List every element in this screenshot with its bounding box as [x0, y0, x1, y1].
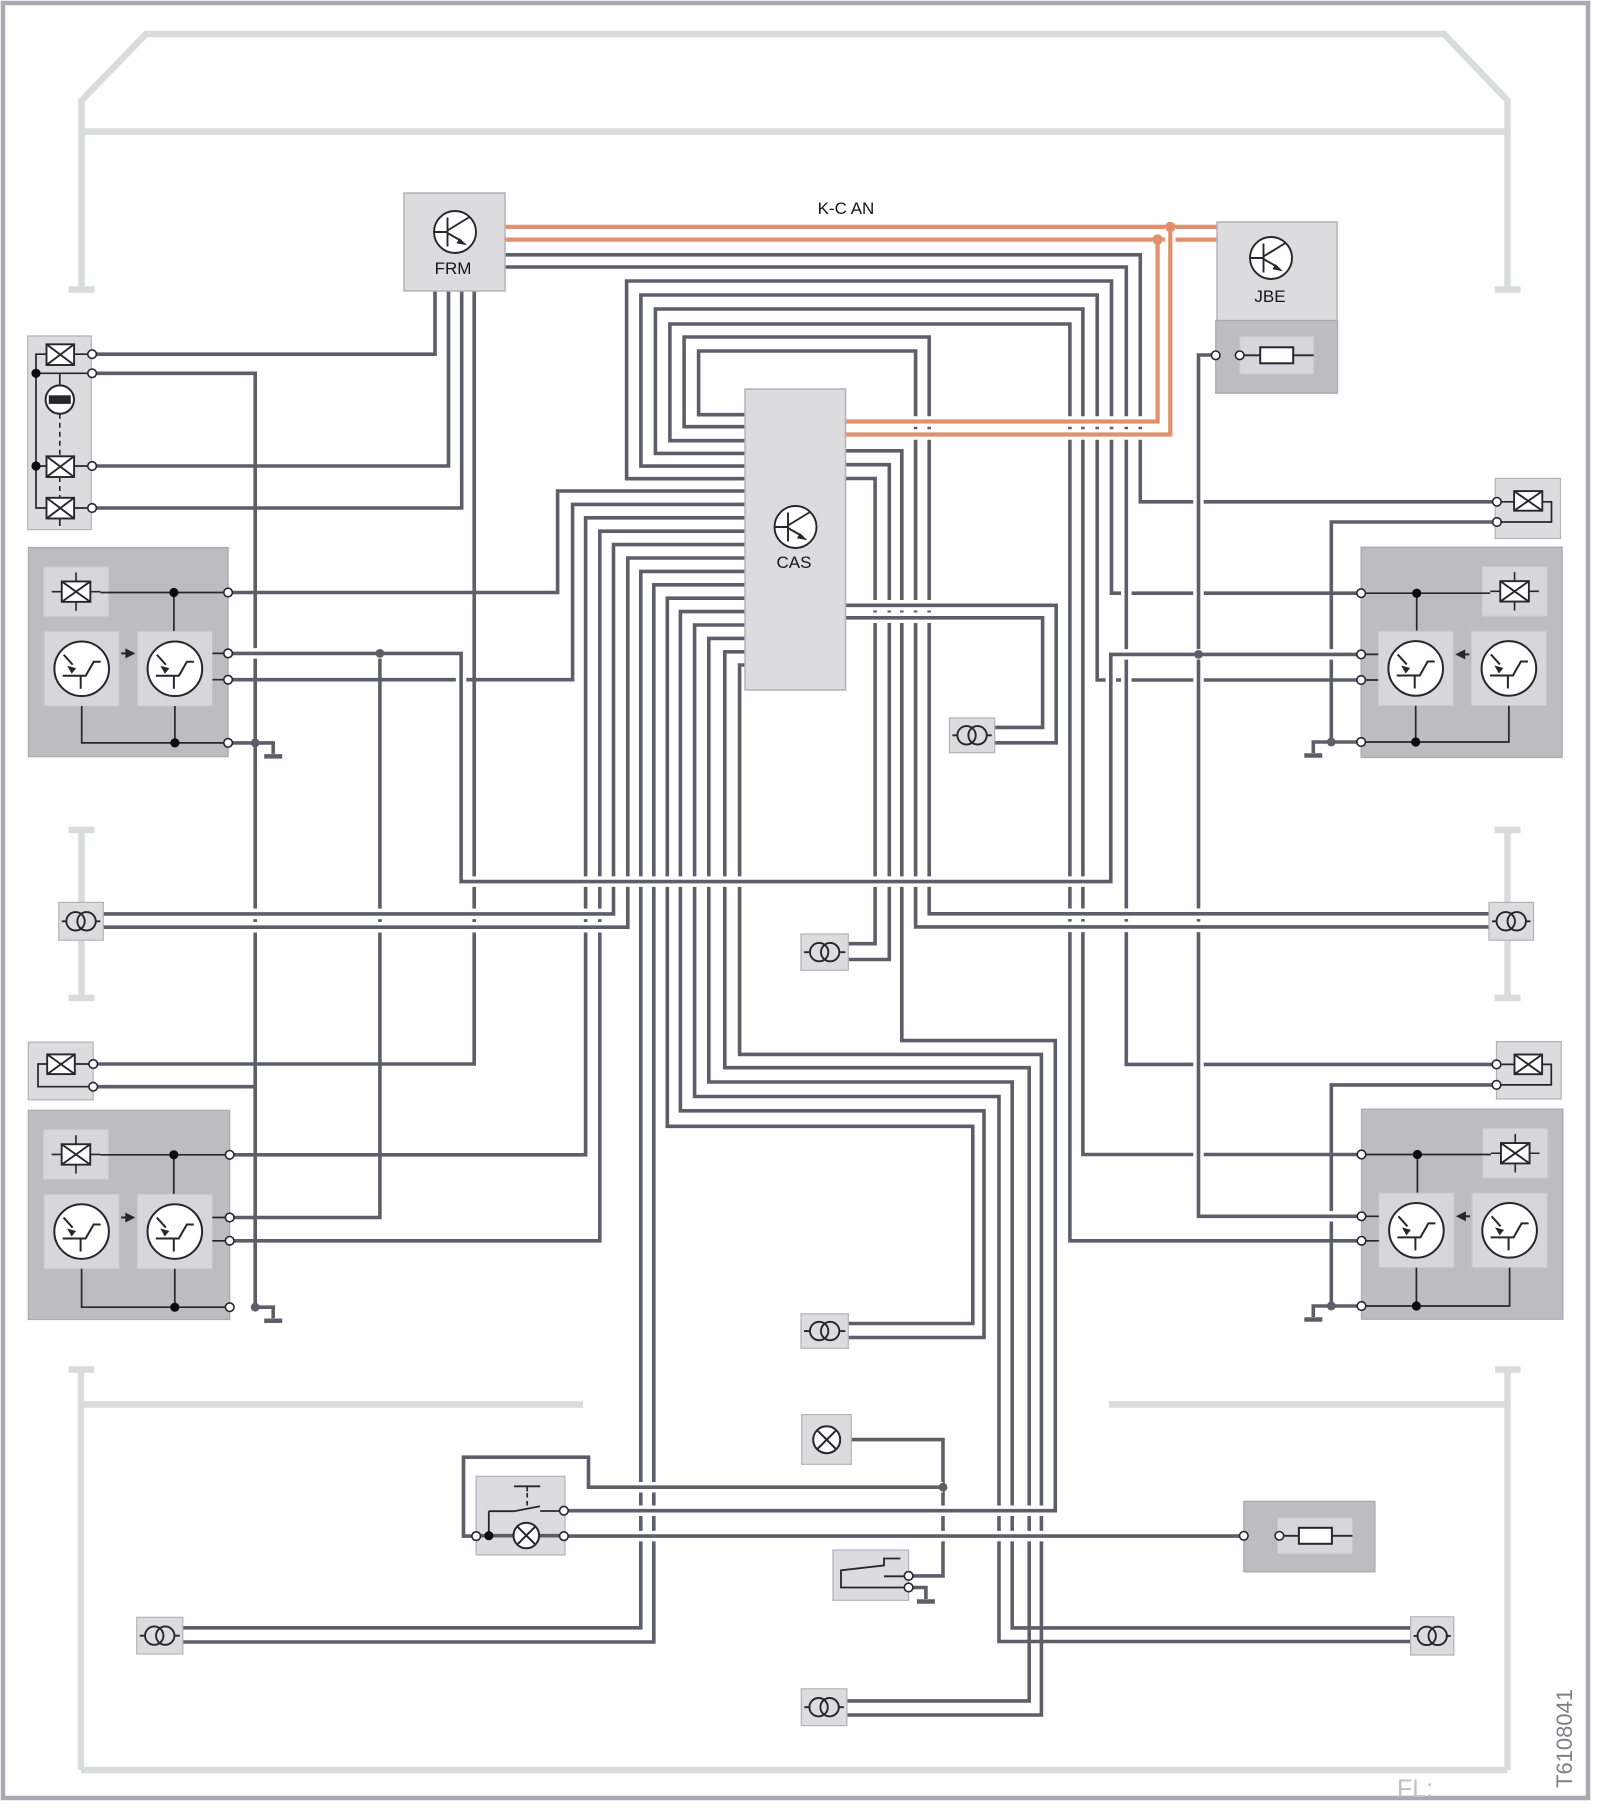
terminal switch out1	[560, 1506, 569, 1515]
wire cluster-B t2 to TR cluster t2	[229, 653, 1361, 881]
svg-text:FL:: FL:	[1397, 1775, 1433, 1803]
wire switch feed loop	[464, 1457, 944, 1536]
relay box	[833, 1550, 909, 1600]
relay contact	[841, 1559, 909, 1588]
wire L9 CAS to center marker top	[667, 598, 973, 1323]
junction node ground left low	[251, 1303, 260, 1312]
wire switch supply from CAS	[564, 451, 1055, 1511]
switch symbol	[514, 1485, 540, 1487]
wire L13 CAS to bottom-center marker top	[725, 652, 1029, 1701]
wire CAS right to mid marker bottom	[846, 605, 1057, 743]
wire L3 CAS to LL cluster t1	[228, 518, 745, 1155]
K-CAN drop inner	[846, 240, 1158, 422]
unit A minus lamp	[46, 385, 74, 413]
lamp bottom-center marker	[801, 1689, 847, 1726]
wire L2 CAS to cluster-B t3	[229, 504, 745, 679]
lamp right side marker	[1489, 902, 1534, 940]
wire branch to LL cluster t2	[228, 653, 380, 1217]
unit A box	[28, 336, 92, 530]
wire JBE fuse to BR cluster t2	[1199, 355, 1360, 1216]
switch box	[476, 1476, 565, 1555]
lamp BR side repeater	[1515, 1055, 1543, 1075]
terminal BR repeater b	[1492, 1081, 1501, 1090]
module JBE symbol	[1250, 237, 1292, 279]
wire FRM out2 to BR lamp-x	[505, 267, 1497, 1064]
JBE fuse link	[1242, 354, 1314, 356]
ground symbol right mid	[1313, 742, 1331, 753]
terminal A1	[88, 350, 97, 359]
unit A dashed link2	[59, 477, 61, 498]
wire FRM pin3 to front-left lamp unit	[92, 291, 462, 508]
switch lamp row	[476, 1534, 564, 1538]
lamp LL side repeater box	[28, 1042, 93, 1100]
cluster BR rear-right flasher unit	[1362, 1109, 1563, 1319]
lamp BR side repeater box	[1497, 1042, 1562, 1099]
junction node B-t2 branch	[376, 649, 385, 658]
lamp mid-right marker	[949, 718, 994, 753]
wire N6 CAS to right marker bottom	[699, 351, 1489, 927]
lamp interior	[813, 1426, 840, 1453]
wire FRM pin1 to front-left lamp unit	[92, 291, 435, 354]
terminal JBE fuse b	[1235, 351, 1244, 360]
lamp LL side repeater	[47, 1054, 75, 1074]
terminal BR repeater a	[1492, 1060, 1501, 1069]
wire N1 CAS to TR cluster t1	[627, 281, 1362, 593]
terminal TR repeater b	[1493, 518, 1502, 527]
terminal switch left	[472, 1532, 481, 1541]
ground symbol relay	[909, 1588, 926, 1600]
switch pilot lamp	[514, 1523, 540, 1549]
svg-text:FRM: FRM	[435, 259, 472, 278]
wire N3 CAS to BR cluster t1	[655, 309, 1359, 1155]
terminal A4	[88, 504, 97, 513]
wire switch lamp to rear fuse	[564, 1531, 1244, 1542]
unit A lamp2	[47, 456, 75, 477]
wire L12 CAS to BR marker top	[709, 638, 1411, 1628]
car body outline	[80, 34, 1509, 132]
lamp bottom-right marker	[1411, 1617, 1454, 1655]
ground symbol left low	[255, 1307, 273, 1318]
wire BR lamp-x t2 ground rail	[1331, 1085, 1496, 1306]
terminal relay b	[904, 1583, 913, 1592]
rear fuse link	[1278, 1535, 1352, 1537]
module CAS box	[745, 389, 846, 690]
module FRM box	[404, 193, 505, 291]
lamp interior box	[802, 1415, 852, 1465]
terminal relay a	[904, 1572, 913, 1581]
wire N2 CAS to TR cluster t3	[641, 295, 1361, 680]
cluster B front-left flasher unit	[28, 548, 228, 757]
wire L6 CAS to left marker bottom	[103, 558, 745, 927]
module JBE fuse carrier	[1216, 321, 1338, 394]
terminal LL repeater a	[89, 1060, 98, 1069]
unit A lamp1	[47, 344, 75, 365]
svg-text:CAS: CAS	[777, 553, 812, 572]
junction node ground right mid	[1327, 738, 1336, 747]
terminal A3	[88, 462, 97, 471]
JBE fuse inner box	[1240, 337, 1314, 375]
lamp center marker	[801, 934, 848, 970]
wire L8 CAS to BL marker bottom	[183, 585, 745, 1642]
wire cluster-B ground stub	[229, 741, 255, 745]
wire L5 CAS to left marker top	[103, 545, 745, 914]
terminal rear fuse b	[1275, 1532, 1284, 1541]
wire L1 CAS to cluster-B t1	[229, 491, 745, 593]
wire CAS right to center marker top	[846, 479, 876, 944]
module CAS symbol	[775, 506, 817, 548]
junction node lamp-switch	[939, 1483, 948, 1492]
wire left ground rail	[92, 373, 255, 1307]
svg-text:K-C AN: K-C AN	[818, 199, 875, 218]
wire L7 CAS to BL marker top	[183, 571, 745, 1627]
wire L4 CAS to LL cluster t3	[228, 531, 745, 1241]
K-CAN bus lower	[505, 234, 1217, 245]
wire L10 CAS to center marker bottom	[680, 612, 984, 1338]
K-CAN junction upper	[1165, 222, 1175, 232]
svg-text:JBE: JBE	[1254, 287, 1285, 306]
unit A lamp3	[47, 498, 75, 519]
switch node	[484, 1531, 493, 1540]
wire CAS right to mid marker top	[846, 618, 1043, 728]
lamp TR side repeater	[1514, 491, 1542, 511]
unit A junction dots	[31, 369, 40, 378]
terminal rear fuse a	[1240, 1532, 1249, 1541]
lamp left side marker	[59, 902, 104, 940]
module JBE box	[1217, 222, 1337, 321]
wire interior lamp to relay	[851, 1440, 943, 1576]
wire L14 CAS to bottom-center marker bottom	[740, 665, 1042, 1715]
lamp bottom-left marker	[137, 1617, 183, 1654]
lamp low-center marker	[801, 1314, 848, 1349]
terminal TR repeater a	[1493, 498, 1502, 507]
wire L11 CAS to BR marker bottom	[695, 625, 1411, 1642]
ground symbol left mid	[255, 743, 273, 754]
junction node ground left mid	[251, 739, 260, 748]
junction node JBE fuse / TR t2	[1194, 650, 1203, 659]
module FRM symbol	[434, 211, 476, 253]
wire N5 CAS to right marker top	[684, 337, 1489, 914]
wire TR lamp-x t2 ground rail	[1331, 522, 1497, 742]
unit A internal bus	[36, 354, 92, 508]
junction node ground right low	[1327, 1302, 1336, 1311]
ground symbol right low	[1313, 1306, 1331, 1317]
terminal switch out2	[560, 1532, 569, 1541]
terminal A2	[88, 369, 97, 378]
wire FRM pin2 to front-left lamp unit	[92, 291, 448, 466]
terminal JBE fuse a	[1211, 351, 1220, 360]
wire lower-left lamp t2 to ground rail	[93, 1085, 255, 1089]
svg-text:T6108041: T6108041	[1552, 1689, 1577, 1788]
K-CAN junction lower	[1152, 234, 1162, 244]
terminal LL repeater b	[89, 1082, 98, 1091]
K-CAN drop outer	[846, 227, 1171, 435]
wire N4 CAS to BR cluster t3	[670, 324, 1360, 1241]
rear fuse box	[1244, 1501, 1375, 1572]
wire FRM out1 to TR lamp-x	[505, 255, 1497, 502]
cluster LL rear-left flasher unit	[28, 1110, 229, 1319]
K-CAN bus upper	[505, 222, 1217, 233]
lamp TR side repeater box	[1495, 478, 1560, 538]
wire FRM pin4 to lower-left turn lamp	[93, 291, 474, 1064]
cluster TR front-right flasher unit	[1361, 547, 1562, 757]
rear fuse inner	[1278, 1518, 1353, 1554]
wire CAS right to center marker bottom	[846, 465, 890, 960]
unit A dashed link1	[59, 414, 61, 457]
